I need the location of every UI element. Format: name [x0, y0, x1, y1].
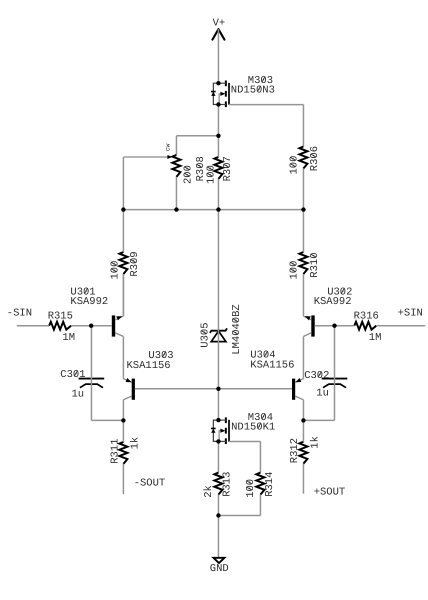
svg-text:1M: 1M	[62, 332, 75, 344]
wire center to U304 base	[218, 388, 292, 390]
wire M303 gate to R306	[229, 104, 303, 106]
wire R309 top lead	[122, 210, 124, 252]
transistor U301 KSA992	[70, 287, 123, 337]
node left output junction	[121, 418, 125, 422]
net label +SOUT	[314, 487, 346, 499]
svg-text:R311: R311	[110, 439, 122, 464]
svg-text:KSA992: KSA992	[314, 296, 352, 308]
svg-text:U305: U305	[200, 322, 212, 347]
wire M303 source down	[217, 105, 219, 136]
svg-text:KSA1156: KSA1156	[127, 360, 171, 372]
resistor R308 potentiometer 200	[123, 143, 206, 184]
resistor R310 100	[289, 252, 322, 280]
svg-text:1k: 1k	[310, 436, 322, 449]
svg-text:R315: R315	[48, 310, 73, 322]
wire U302 collector to U304	[302, 337, 304, 379]
capacitor C301 1u	[60, 369, 104, 401]
node base bus center	[216, 387, 220, 391]
svg-text:1M: 1M	[369, 332, 382, 344]
wire to GND	[217, 516, 219, 558]
wire R310 top lead	[302, 210, 304, 252]
node U301 base / C301	[89, 324, 93, 328]
junction M303 drain	[216, 81, 220, 85]
transistor U304 KSA1156	[250, 350, 303, 400]
wire R313 bottom lead	[217, 495, 219, 516]
wire R312 top lead	[302, 420, 304, 441]
svg-text:-SOUT: -SOUT	[134, 477, 166, 489]
node U302 base / C302	[332, 324, 336, 328]
wire bus through U305 to base bus	[217, 210, 219, 389]
svg-text:2k: 2k	[203, 485, 215, 498]
capacitor C302 1u	[304, 370, 347, 400]
svg-text:R309: R309	[129, 251, 141, 276]
wire R309 to U301 emitter	[122, 274, 124, 316]
svg-text:ND150K1: ND150K1	[231, 421, 275, 433]
net label +SIN	[398, 308, 423, 320]
wire pot wiper down	[122, 157, 124, 210]
wire U303 collector down	[122, 400, 124, 421]
svg-text:R312: R312	[289, 438, 301, 463]
wire R314 bottom lead	[259, 495, 261, 516]
wire U304 collector down	[302, 400, 304, 421]
power symbol V+	[212, 17, 225, 39]
resistor R316 1M	[354, 310, 382, 344]
wire C302 lead	[334, 326, 336, 421]
svg-text:+SOUT: +SOUT	[314, 487, 346, 499]
wire C302 to right column	[303, 419, 334, 421]
svg-text:LM4040BZ: LM4040BZ	[231, 304, 243, 354]
svg-text:R316: R316	[354, 310, 379, 322]
svg-text:100: 100	[245, 479, 257, 498]
svg-text:V+: V+	[213, 17, 226, 29]
wire -SIN stub	[17, 325, 49, 327]
wire C301 to left column	[91, 419, 123, 421]
wire pot top	[176, 135, 218, 137]
net label -SOUT	[134, 477, 166, 489]
zener diode U305 LM4040BZ	[200, 304, 244, 354]
wire R314 top lead	[259, 442, 261, 473]
wire R307 bottom lead	[217, 179, 219, 210]
node bottom junction	[216, 513, 220, 517]
wire U303 base to center	[135, 388, 219, 390]
svg-text:R306: R306	[309, 146, 321, 171]
net label -SIN	[7, 307, 32, 319]
node bus center	[216, 207, 220, 211]
transistor U302 KSA992	[303, 287, 352, 337]
node R307 top junction	[216, 134, 220, 138]
wire bottom junction	[218, 515, 260, 517]
svg-text:KSA1156: KSA1156	[250, 359, 294, 371]
resistor R309 100	[110, 251, 141, 279]
resistor R306 100	[289, 146, 322, 175]
wire M304 source to R313	[217, 441, 219, 472]
wire R306 top lead	[302, 105, 304, 147]
wire pot top lead	[175, 136, 177, 155]
svg-text:1k: 1k	[130, 437, 142, 450]
node bus pot	[174, 207, 178, 211]
wire U301 base	[91, 325, 112, 327]
svg-text:100: 100	[110, 261, 122, 280]
node bus right	[301, 207, 305, 211]
wire U301 collector to U303	[122, 337, 124, 379]
wire R310 to U302 emitter	[302, 274, 304, 316]
svg-text:200: 200	[183, 165, 195, 184]
transistor U303 KSA1156	[123, 350, 173, 400]
wire C301 lead	[90, 326, 92, 421]
svg-text:GND: GND	[210, 563, 229, 575]
resistor R314 100	[245, 472, 276, 498]
node right output junction	[301, 418, 305, 422]
svg-text:100: 100	[205, 165, 217, 184]
svg-text:-SIN: -SIN	[7, 307, 32, 319]
resistor R307 100	[205, 156, 234, 184]
resistor R313 2k	[203, 472, 234, 498]
svg-text:+SIN: +SIN	[398, 308, 423, 320]
node bus left	[121, 207, 125, 211]
wire collector bus	[123, 209, 303, 211]
resistor R311 1k	[110, 437, 142, 464]
ground symbol GND	[210, 558, 229, 575]
wire M304 gate right	[229, 441, 260, 443]
svg-text:KSA992: KSA992	[70, 296, 108, 308]
svg-text:ND150N3: ND150N3	[231, 84, 275, 96]
svg-text:1u: 1u	[316, 387, 329, 399]
transistor M303 ND150N3 (depletion NMOS current source)	[211, 75, 275, 107]
wire -SOUT stub	[122, 464, 124, 494]
junction M303 source	[216, 102, 220, 106]
transistor M304 ND150K1 (depletion NMOS)	[211, 412, 275, 444]
junction M304 drain	[216, 418, 220, 422]
wire U301 emitter up	[122, 274, 124, 316]
svg-text:cw: cw	[164, 143, 171, 151]
wire U302 base	[315, 325, 335, 327]
wire pot bottom lead	[175, 177, 177, 210]
wire R311 top lead	[122, 420, 124, 442]
wire +SOUT stub	[302, 464, 304, 494]
svg-text:R313: R313	[222, 472, 234, 497]
svg-text:R314: R314	[264, 472, 276, 497]
wire base to R316	[335, 325, 355, 327]
wire base bus to M304 drain	[217, 389, 219, 420]
resistor R312 1k	[289, 436, 322, 464]
wire V+ to M303 drain	[217, 29, 219, 83]
wire R307 top lead	[217, 136, 219, 157]
wire R315 to base	[71, 325, 91, 327]
resistor R315 1M	[48, 310, 75, 344]
svg-text:C301: C301	[60, 369, 85, 381]
svg-text:C302: C302	[304, 370, 329, 382]
svg-text:100: 100	[289, 261, 301, 280]
svg-text:100: 100	[289, 156, 301, 175]
svg-text:1u: 1u	[72, 389, 85, 401]
junction M304 source	[216, 439, 220, 443]
wire R306 bottom lead	[302, 169, 304, 210]
wire +SIN stub	[376, 325, 425, 327]
svg-text:R307: R307	[222, 156, 234, 181]
